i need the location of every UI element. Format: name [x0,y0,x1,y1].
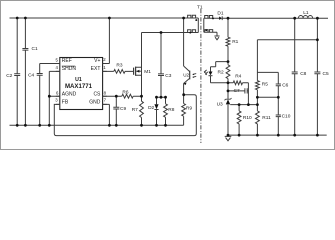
svg-text:U3: U3 [217,101,223,107]
svg-text:C3: C3 [165,73,171,79]
svg-text:AGND: AGND [62,92,77,98]
svg-text:R8: R8 [168,107,174,113]
svg-text:R7: R7 [132,107,138,113]
svg-text:SHDN: SHDN [62,66,77,72]
svg-text:C1: C1 [32,46,38,52]
svg-text:R4: R4 [235,74,241,80]
svg-text:U1: U1 [75,77,82,83]
svg-text:D1: D1 [217,11,223,17]
svg-text:C10: C10 [282,114,291,120]
svg-text:C7: C7 [234,88,240,94]
svg-text:MAX1771: MAX1771 [65,83,93,90]
svg-text:C2: C2 [6,73,12,79]
svg-text:FB: FB [62,100,69,106]
svg-text:C9: C9 [120,106,126,112]
svg-text:R2: R2 [218,69,224,75]
svg-text:D2: D2 [148,105,154,111]
svg-text:U2: U2 [183,72,189,77]
svg-text:EXT: EXT [91,66,101,72]
svg-text:C5: C5 [323,71,329,77]
svg-text:L1: L1 [303,10,309,16]
svg-text:C8: C8 [300,71,306,77]
svg-text:M1: M1 [144,69,151,75]
svg-text:GND: GND [89,100,101,106]
svg-text:R5: R5 [262,82,268,88]
svg-text:R6: R6 [122,90,128,96]
svg-text:C6: C6 [282,82,288,88]
svg-text:C4: C4 [28,72,34,78]
svg-text:R3: R3 [116,63,122,69]
svg-text:CS: CS [93,92,101,98]
svg-text:T1: T1 [197,4,203,10]
svg-text:V+: V+ [94,58,100,64]
svg-text:R1: R1 [232,39,238,45]
svg-text:REF: REF [62,58,72,64]
svg-text:R10: R10 [243,115,252,121]
svg-text:R11: R11 [262,115,271,121]
svg-text:R9: R9 [186,105,192,111]
